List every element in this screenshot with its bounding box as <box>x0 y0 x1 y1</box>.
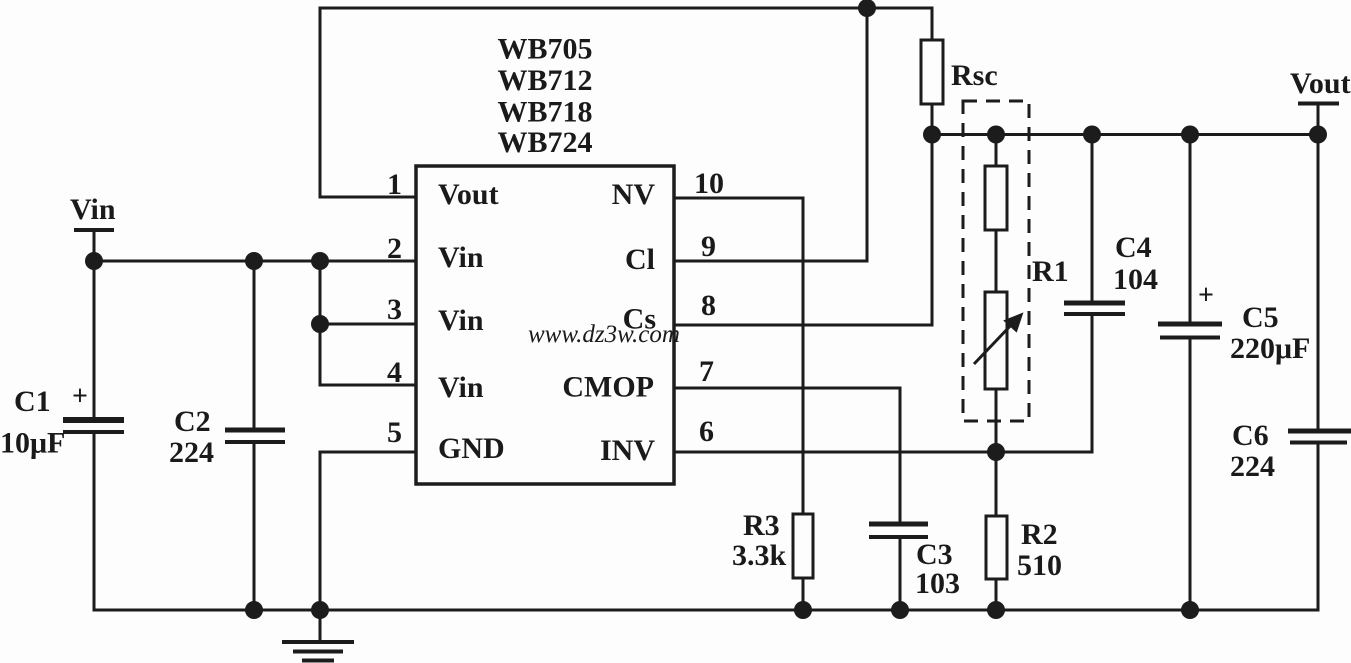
svg-text:5: 5 <box>387 416 402 449</box>
svg-text:224: 224 <box>169 436 214 469</box>
svg-text:8: 8 <box>701 289 716 322</box>
svg-text:Rsc: Rsc <box>951 59 998 92</box>
svg-text:C5: C5 <box>1242 301 1279 334</box>
svg-text:6: 6 <box>699 415 714 448</box>
svg-text:WB712: WB712 <box>497 64 592 97</box>
svg-text:Vin: Vin <box>438 371 484 404</box>
svg-text:C1: C1 <box>14 385 51 418</box>
svg-text:103: 103 <box>915 567 960 600</box>
svg-text:+: + <box>72 381 88 412</box>
svg-text:9: 9 <box>701 230 716 263</box>
svg-text:1: 1 <box>387 168 402 201</box>
svg-text:3: 3 <box>387 293 402 326</box>
svg-text:10: 10 <box>694 167 724 200</box>
svg-text:2: 2 <box>387 232 402 265</box>
svg-text:GND: GND <box>438 432 505 465</box>
svg-text:WB724: WB724 <box>497 126 592 159</box>
svg-text:Cl: Cl <box>625 243 655 276</box>
svg-text:CMOP: CMOP <box>562 371 654 404</box>
svg-text:Vout: Vout <box>1290 67 1351 100</box>
svg-text:C2: C2 <box>174 405 211 438</box>
svg-text:R2: R2 <box>1021 518 1058 551</box>
svg-text:R1: R1 <box>1032 255 1069 288</box>
svg-text:220μF: 220μF <box>1230 332 1310 365</box>
svg-text:C4: C4 <box>1115 231 1152 264</box>
svg-text:Vin: Vin <box>438 304 484 337</box>
svg-text:NV: NV <box>612 178 656 211</box>
svg-text:INV: INV <box>600 434 655 467</box>
svg-text:104: 104 <box>1113 263 1158 296</box>
svg-text:Vin: Vin <box>70 193 116 226</box>
svg-text:Vin: Vin <box>438 241 484 274</box>
svg-text:+: + <box>1198 280 1214 311</box>
svg-text:WB705: WB705 <box>497 33 592 66</box>
svg-text:R3: R3 <box>743 509 780 542</box>
svg-text:Vout: Vout <box>438 178 499 211</box>
svg-text:510: 510 <box>1017 549 1062 582</box>
svg-text:224: 224 <box>1230 450 1275 483</box>
svg-text:www.dz3w.com: www.dz3w.com <box>528 321 680 348</box>
svg-text:10μF: 10μF <box>0 427 65 460</box>
svg-text:C6: C6 <box>1232 419 1269 452</box>
svg-text:3.3k: 3.3k <box>732 539 787 572</box>
svg-text:WB718: WB718 <box>497 96 592 129</box>
svg-text:7: 7 <box>699 355 714 388</box>
svg-text:4: 4 <box>387 356 402 389</box>
